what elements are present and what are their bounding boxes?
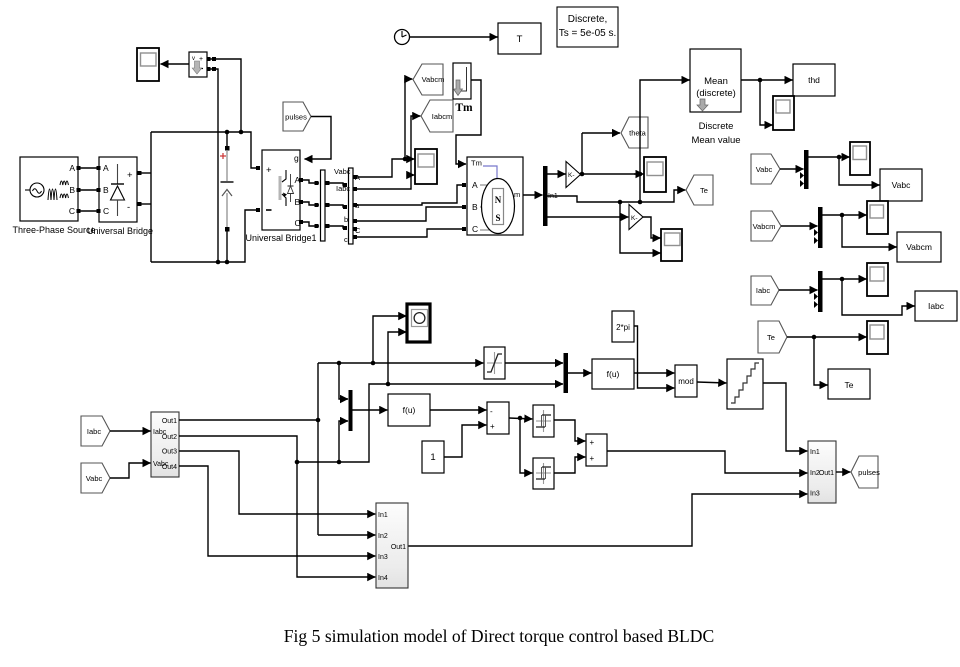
block thd (793, 64, 835, 96)
wire TPS-B to UB-B (77, 188, 101, 192)
scope Scope6 (850, 142, 870, 175)
svg-text:Vabc: Vabc (892, 180, 911, 190)
svg-text:In3: In3 (378, 554, 388, 561)
wire bus1 to bus2 row C (325, 224, 347, 230)
svg-text:thd: thd (808, 75, 820, 85)
block Voltage Measurement (189, 52, 207, 77)
scope Scope3 (speed) (644, 157, 666, 192)
block T (to workspace) (498, 23, 541, 54)
wire bus1 to bus2 row B (325, 203, 347, 209)
wire demux out2 to Te tag (548, 190, 686, 204)
wire vertical to Mean block input (640, 80, 690, 202)
wire Vabcm tag to demux2 (781, 225, 818, 227)
goto tag Vabcm (top) (413, 64, 444, 95)
svg-text:In1: In1 (810, 449, 820, 456)
scope XY Graph (407, 304, 430, 342)
svg-text:+: + (490, 422, 495, 431)
wire Out2 net (to In4 and y462 line) (179, 436, 375, 577)
svg-text:b: b (344, 215, 348, 224)
wire Out1 net (to In2 and upper line) (179, 363, 375, 535)
block Constant 2*pi (612, 311, 634, 342)
goto tag pulses (bottom right) (851, 456, 880, 488)
svg-text:In4: In4 (378, 575, 388, 582)
wire demux2 to Vabcm block (842, 215, 897, 247)
wire VM plus to DC+ rail (207, 57, 242, 130)
wire demux out1 to Gain1 (548, 173, 566, 175)
wire Sum1 branch to Relay2 (520, 418, 532, 473)
wire subsystem to pulses tag (836, 471, 850, 473)
wire Relay2 to Sum2 (554, 457, 585, 473)
block Iabc (to workspace) (915, 291, 957, 321)
svg-text:Tm: Tm (471, 159, 482, 168)
label Discrete Mean value (691, 121, 740, 146)
svg-text:Out1: Out1 (819, 470, 834, 477)
svg-text:Discrete,: Discrete, (568, 14, 607, 25)
wire VM output to Scope1 (161, 63, 190, 65)
wire upper line y363 to Saturation (318, 361, 483, 366)
wire bus2 Iabc out to scope and Iabcm tag (353, 116, 420, 191)
svg-text:Mean value: Mean value (691, 135, 740, 146)
wire bus2 b to motor B (353, 205, 466, 223)
block Relay1 (533, 405, 554, 437)
wire Clock to T (410, 36, 498, 38)
svg-text:A: A (69, 163, 75, 173)
svg-text:Iabc: Iabc (87, 427, 101, 436)
label bus2 ports (344, 173, 361, 244)
wire mux563 to Fcn2 (568, 372, 591, 374)
scope Scope5 (thd) (773, 96, 794, 130)
svg-text:Vabc: Vabc (86, 474, 103, 483)
svg-text:Te: Te (845, 380, 854, 390)
svg-text:Te: Te (767, 333, 775, 342)
block Three-Phase Source (20, 157, 78, 221)
wire pulses to UB1 gate (305, 117, 332, 160)
wire demux1 to Vabc block (839, 157, 880, 185)
block Universal Bridge (99, 157, 137, 222)
demux bar (motor outputs) (543, 166, 548, 226)
svg-text:S: S (495, 213, 500, 223)
wire UB1-C to bus1 (299, 220, 319, 228)
svg-text:1: 1 (430, 452, 435, 463)
svg-text:Vabcm: Vabcm (422, 75, 445, 84)
wire demux1 to Scope6 (809, 155, 850, 160)
block Mean (discrete) (690, 49, 741, 112)
wire UB1-A to bus1 (299, 178, 319, 185)
svg-text:pulses: pulses (285, 113, 307, 122)
wire Gain2 to Scope4 (643, 217, 661, 238)
svg-text:Vabcm: Vabcm (753, 222, 776, 231)
wire branch to mux input2 (339, 421, 348, 462)
svg-text:Iabc: Iabc (928, 301, 945, 311)
scope Scope1 (top left) (137, 48, 159, 81)
svg-text:Fig 5 simulation model of Dire: Fig 5 simulation model of Direct torque … (284, 626, 715, 646)
scope Scope8 (867, 263, 888, 296)
svg-text:Out3: Out3 (162, 449, 177, 456)
block Constant 1 (422, 441, 444, 473)
svg-text:In2: In2 (378, 533, 388, 540)
block Tm source (453, 63, 471, 99)
gain K1 (566, 162, 581, 188)
svg-text:T: T (517, 34, 523, 45)
svg-text:Vabcm: Vabcm (906, 242, 932, 252)
svg-text:B: B (472, 202, 478, 212)
wire branch to Scope4 input2 (620, 202, 661, 253)
annotation Discrete Ts (557, 7, 618, 47)
block Quantizer (727, 359, 763, 409)
svg-text:C: C (103, 206, 109, 216)
from tag Vabcm (751, 211, 781, 241)
wire TPS-C to UB-C (77, 209, 101, 213)
wire demux2 to Scope7 (823, 213, 867, 218)
svg-text:Universal Bridge: Universal Bridge (87, 226, 153, 236)
svg-text:theta: theta (629, 129, 647, 138)
wire branch to XY graph input1 (373, 316, 406, 363)
wire branch to XY graph input2 (388, 332, 406, 384)
svg-text:+: + (266, 165, 272, 176)
block Relay2 (533, 458, 554, 489)
svg-text:-: - (490, 407, 493, 416)
wire mux to Fcn3 (353, 409, 388, 411)
from tag pulses (top) (283, 102, 311, 131)
svg-text:+: + (127, 170, 133, 181)
block Sum1 (487, 402, 509, 434)
svg-text:C: C (69, 206, 75, 216)
svg-text:C: C (472, 224, 478, 234)
svg-text:-: - (127, 202, 130, 213)
svg-text:Universal Bridge1: Universal Bridge1 (245, 233, 316, 243)
wire demux out3 to Gain2 (548, 216, 629, 218)
wire Relay1 to Sum2 (554, 420, 585, 441)
wire y462 line to y384 line (297, 382, 563, 465)
wire Sum2 to subsystem In2 (607, 451, 807, 473)
svg-text:mod: mod (678, 377, 694, 386)
wire VM minus to DC- rail (207, 67, 219, 261)
goto tag Iabcm (top) (421, 100, 453, 132)
svg-text:Te: Te (700, 186, 708, 195)
from tag Te (right column) (758, 321, 787, 353)
svg-text:m: m (514, 190, 520, 199)
block Te (to workspace) (828, 369, 870, 399)
svg-text:c: c (344, 235, 348, 244)
block PMSM motor (467, 157, 523, 235)
wire Te tag to Scope9 (787, 335, 867, 340)
subsystem abc-to-dq (Out1..Out4) (151, 412, 179, 477)
goto tag Te (middle) (686, 175, 713, 205)
wire bus2 c to motor C (353, 227, 466, 239)
svg-text:(discrete): (discrete) (696, 88, 736, 99)
mux (bottom left) (349, 390, 353, 431)
block Saturation (484, 347, 505, 379)
wire 2*pi to mod (634, 326, 674, 388)
wire Tm to motor (456, 80, 481, 164)
svg-text:Out1: Out1 (162, 418, 177, 425)
svg-text:Iabc: Iabc (756, 286, 770, 295)
wire Out3 to In1 (179, 451, 375, 514)
wire demux3 to Iabc block (842, 279, 915, 315)
svg-text:Vabc: Vabc (334, 167, 351, 176)
scope Scope7 (867, 201, 888, 234)
wire UB1-B to bus1 (299, 200, 319, 207)
wire Saturation to mux563 (505, 362, 563, 364)
svg-text:Iabcm: Iabcm (432, 112, 452, 121)
block Fcn3 f(u) (388, 394, 430, 426)
svg-text:Ts = 5e-05 s.: Ts = 5e-05 s. (559, 28, 617, 39)
wire Constant to Sum1 (444, 425, 486, 457)
goto tag theta (621, 117, 648, 148)
wire Iabc tag to subsystem1 (110, 430, 151, 432)
svg-text:f(u): f(u) (607, 369, 620, 379)
subsystem commutation (In1,In2,In3 -> Out1) (808, 441, 836, 503)
demux bar right3 (814, 271, 823, 312)
svg-text:K-: K- (568, 172, 575, 179)
wire DC- rail (138, 132, 261, 264)
wire Iabc tag to demux3 (779, 289, 818, 291)
svg-text:Iabc: Iabc (336, 184, 350, 193)
svg-text:Vabc: Vabc (756, 165, 773, 174)
wire Quantizer to subsystem In1 (763, 383, 807, 451)
subsystem gate logic (In1..In4 -> Out1) (376, 503, 408, 588)
svg-text:B: B (69, 185, 75, 195)
svg-text:K-: K- (631, 215, 638, 222)
svg-text:B: B (103, 185, 109, 195)
from tag Vabc (right column) (751, 154, 780, 184)
svg-text:f(u): f(u) (403, 405, 416, 415)
svg-text:Out2: Out2 (162, 434, 177, 441)
svg-text:In1: In1 (378, 512, 388, 519)
demux bar right1 (800, 150, 809, 189)
svg-text:pulses: pulses (858, 468, 880, 477)
svg-text:Mean: Mean (704, 76, 728, 87)
block Clock (395, 30, 410, 45)
wire bus2 a to motor A (353, 183, 466, 207)
gain K2 (629, 205, 643, 230)
svg-text:Out4: Out4 (162, 464, 177, 471)
capacitor DC link branch (220, 132, 234, 262)
wire Gain1 to Scope3 with theta branch (580, 133, 644, 176)
wire Sum1 to Relay1 (509, 416, 532, 421)
demux bar right2 (814, 207, 823, 248)
svg-text:+: + (590, 438, 595, 447)
from tag Iabc (bottom left) (81, 416, 110, 446)
wire Mean to thd (741, 78, 793, 83)
wire bus1 to bus2 row A (325, 181, 347, 187)
block mod (675, 365, 697, 397)
wire TPS-A to UB-A (77, 166, 101, 170)
mux 563 (564, 353, 569, 393)
wire Mean branch to Scope5 (760, 80, 773, 125)
from tag Iabc (right column) (751, 276, 779, 305)
bus measurement bar1 (321, 170, 326, 241)
scope Scope9 (867, 321, 888, 354)
wire Out4 to In3 (179, 466, 375, 556)
svg-text:Discrete: Discrete (699, 121, 734, 132)
wire motor m to demux (523, 194, 543, 196)
bus measurement bar2 (349, 168, 354, 244)
svg-text:N: N (495, 195, 502, 205)
wire demux3 to Scope8 (823, 277, 867, 282)
wire Te branch to Te block (814, 337, 828, 385)
svg-text:Tm: Tm (455, 102, 473, 114)
wire Out1 of subsystem3 to In3 (408, 494, 807, 546)
block Sum2 (586, 434, 607, 466)
wire DC+ rail (138, 130, 261, 175)
svg-text:In3: In3 (810, 491, 820, 498)
wire Fcn2 to mod (634, 372, 674, 374)
svg-text:g: g (294, 153, 299, 163)
svg-text:+: + (590, 454, 595, 463)
svg-text:Three-Phase Source: Three-Phase Source (12, 225, 95, 235)
scope Scope2 (bus scope) (415, 149, 437, 184)
block Fcn2 f(u) (592, 359, 634, 389)
block Vabc (to workspace) (880, 169, 922, 201)
wire mod to Quantizer (697, 382, 726, 383)
svg-text:A: A (472, 180, 478, 190)
wire Fcn3 to Sum1 (430, 409, 486, 411)
block Universal Bridge1 (262, 150, 301, 230)
block Vabcm (to workspace) (897, 232, 941, 262)
wire bus2 Vabc out to scope and Vabcm tag (353, 79, 414, 179)
scope Scope4 (torque) (661, 229, 682, 261)
svg-text:2*pi: 2*pi (616, 323, 630, 332)
wire branch to mux input1 (339, 363, 348, 399)
svg-text:A: A (103, 163, 109, 173)
wire Vabc tag to subsystem1 (110, 463, 151, 478)
svg-text:Out1: Out1 (391, 544, 406, 551)
from tag Vabc (bottom left) (81, 463, 110, 493)
wire Vabc tag to demux1 (780, 168, 804, 170)
